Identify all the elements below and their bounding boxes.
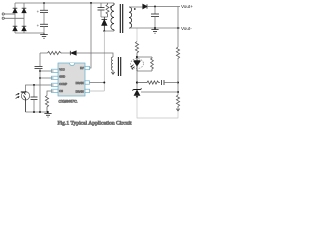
svg-text:VCC: VCC [59,68,65,72]
wire DRAIN2 to drain vertical [90,90,105,92]
svg-text:Vout-: Vout- [181,26,192,31]
wire drain node to primary bottom [104,30,114,32]
svg-text:COMP: COMP [59,82,67,86]
diode D5 clamp [102,17,108,31]
wire VCC feed horizontal [40,52,48,54]
IC U1 pin COMP [52,82,68,87]
wire COMP pin [26,85,54,91]
node DRAIN1 junction [103,82,105,84]
capacitor C1 bulk upper [40,3,48,13]
wire bottom rail [26,111,49,113]
node secondary polarity dot [134,8,136,10]
wire GND pin [40,77,54,79]
label IC part number [59,100,78,104]
label Vout- [181,26,192,31]
node HV tap on top rail [90,2,92,4]
node drain junction [103,30,105,32]
resistor R4 LED series [135,42,138,57]
wire right rail middle [177,59,179,95]
optocoupler U2 phototransistor [21,91,30,112]
resistor R7 LED parallel [151,57,154,71]
node Vout- rail junction [177,27,179,29]
node TL431 anode [136,96,138,98]
wire bridge bottom rail [15,32,44,34]
svg-text:GND: GND [59,75,65,79]
node COMP cap junction [33,84,35,86]
wire aux arrow [111,70,114,74]
diode D3 bridge lower-left [13,26,18,31]
node GND junction [39,77,41,79]
svg-text:CXM8657C.: CXM8657C. [59,100,78,104]
wire feed mid [62,52,70,54]
wire CS pin [47,91,54,96]
wire drain vertical to IC [103,31,105,91]
resistor R2 clamp [106,3,109,17]
wire secondary top to output diode [129,6,143,8]
ground bottom rail [44,112,51,117]
node primary polarity dot [110,6,112,8]
node bottom rail VCC col [39,111,41,113]
node comp RC junction [136,81,138,83]
wire arrow to return [176,107,179,111]
label Vout+ [181,4,193,9]
svg-text:HV: HV [80,66,84,70]
node bottom rail COMP cap [33,111,35,113]
transformer T1 primary winding [111,3,114,31]
svg-text:DRAIN: DRAIN [76,81,84,85]
wire LED parallel branch bottom [137,70,152,72]
node output cap top [154,6,156,8]
svg-text:Vout+: Vout+ [181,4,193,9]
wire right rail from Vout+ [177,7,179,48]
capacitor C7 COMP [31,85,38,112]
AC input terminal L [2,13,15,15]
capacitor C2 bulk lower [40,13,48,33]
wire HV vertical to IC pin [90,3,92,68]
IC U1 pin HV [80,66,89,70]
diode D7 VCC feed [70,51,76,55]
resistor R5 divider upper [176,47,179,59]
IC U1 pin DRAIN2 [76,89,90,93]
resistor R3 CS sense [45,96,48,113]
label bulk cap polarity marks [37,11,39,27]
wire bridge right vertical [23,3,25,33]
capacitor C4 output [151,7,159,29]
node output cap bottom [154,27,156,29]
node LED top junction [136,56,138,58]
node top rail junction at bulk cap [43,2,45,4]
node VCC junction [39,70,41,72]
wire faint LED feed [136,29,138,42]
resistor R6 divider lower [176,95,179,107]
transformer T1 core [120,4,122,33]
transformer T1 secondary winding [129,7,132,28]
optocoupler U2 LED [134,57,141,71]
resistor R1 VCC feed [48,51,63,54]
diode D2 bridge upper-right [22,8,27,13]
svg-text:DRAIN: DRAIN [76,89,84,93]
diode D4 bridge lower-right [22,26,27,31]
svg-text:Fig.1 Typical Application Circ: Fig.1 Typical Application Circuit [58,120,133,126]
capacitor C6 comp [162,80,179,85]
transformer T1 aux winding [111,57,113,70]
wire faint return path [137,97,178,118]
AC input terminal N [2,17,24,19]
diode D1 bridge upper-left [13,8,18,13]
IC U1 pin GND [52,75,66,80]
wire TL431 ref to divider [141,91,178,93]
wire feed to aux [76,53,113,57]
optocoupler U2 LED emission arrows [131,65,135,70]
ground primary bridge [40,33,48,38]
capacitor C3 clamp [98,3,105,17]
wire LED parallel branch top [137,56,152,58]
wire bridge left vertical [14,3,16,33]
optocoupler U2 light arrows [16,93,19,98]
IC U1 pin VCC [52,68,65,73]
optocoupler U2 LED dashed circle [131,59,144,69]
wire DRAIN1 to drain vertical [90,82,105,84]
wire secondary bottom rail [129,27,180,29]
capacitor C5 VCC column [35,53,43,112]
wire output positive [147,6,180,8]
IC U1 body [58,63,85,96]
diode D6 output rectifier [143,4,147,9]
label caption [58,120,133,126]
wire clamp bottom rung [101,16,108,18]
wire LED cathode down [136,71,138,89]
transformer T1 aux core [118,57,120,76]
node divider REF junction [177,91,179,93]
wire VCC pin [40,70,54,72]
wire top rail VIN+ [15,2,114,4]
node CS resistor bottom [47,111,49,113]
svg-text:CS: CS [59,89,63,93]
resistor R8 comp [137,81,160,84]
node divider RC junction [177,82,179,84]
TL431 U3 [132,88,141,97]
ground secondary [151,28,158,33]
IC U1 pin CS [52,89,64,93]
IC U1 pin DRAIN1 [76,81,90,85]
